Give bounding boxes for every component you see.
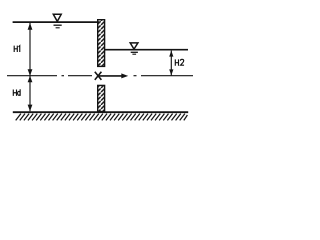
- arrowhead up at surface (H1 top): [28, 23, 33, 30]
- water surface line downstream (right): [105, 49, 188, 51]
- dimension line H2 vertical: [170, 51, 172, 76]
- ground hatching: [16, 114, 188, 121]
- centerline dash right: [134, 75, 194, 77]
- water level symbol left (nabla): [53, 14, 61, 27]
- water level symbol right (nabla): [130, 43, 138, 54]
- label H1: [14, 46, 20, 52]
- arrowhead up at right surface (H2 top): [169, 51, 173, 57]
- gate wall upper (hatched): [98, 20, 105, 67]
- label Hd: [13, 89, 20, 96]
- label H2: [175, 59, 184, 65]
- arrowhead down at ground (Hd bottom): [28, 105, 33, 112]
- water surface line upstream (left reservoir): [13, 21, 99, 23]
- ground line (channel bottom): [13, 111, 188, 113]
- arrowhead down at centerline (H1 bottom): [28, 69, 33, 76]
- flow direction arrow on centerline: [99, 73, 128, 78]
- centerline dash left: [7, 75, 92, 77]
- vena contracta cross mark: [95, 72, 102, 80]
- dimension line H1/Hd vertical: [29, 23, 31, 111]
- arrowhead up at centerline (Hd top): [28, 76, 33, 82]
- gate wall lower stub (hatched): [98, 85, 105, 111]
- arrowhead down at centerline (H2 bottom): [169, 69, 173, 75]
